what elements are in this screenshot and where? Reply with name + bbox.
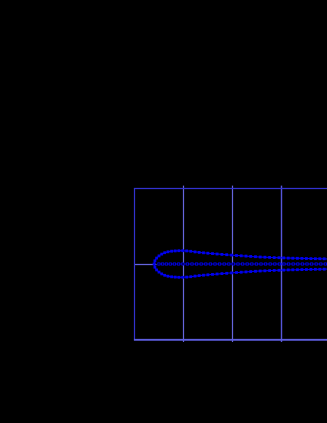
- airfoil surface point markers: [153, 249, 327, 278]
- camber line square markers: [158, 263, 327, 265]
- gridline x=0.5: [232, 186, 234, 342]
- axes box left border: [134, 188, 136, 339]
- axes box bottom border: [134, 339, 327, 341]
- gridline y=0 stub: [134, 264, 156, 266]
- gridline x=0.25: [183, 186, 185, 342]
- camber line: [159, 263, 327, 265]
- axes box top border: [134, 188, 327, 190]
- airfoil surface outline: [154, 251, 327, 278]
- gridline x=0.75: [281, 186, 283, 342]
